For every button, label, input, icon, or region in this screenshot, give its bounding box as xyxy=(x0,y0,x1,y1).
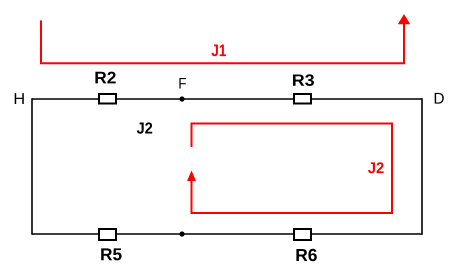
wire bottom xyxy=(32,233,422,235)
resistor R6 xyxy=(294,229,311,240)
junction dot bottom xyxy=(179,231,184,236)
label H xyxy=(15,93,24,104)
loop current arrow J1 xyxy=(41,14,410,63)
resistor R3 xyxy=(294,94,311,104)
wire left (H side) xyxy=(31,98,33,235)
resistor R5 xyxy=(99,229,116,240)
wire top (H to D) xyxy=(32,98,422,100)
label R5 xyxy=(101,248,121,260)
label J2 (mesh, red) xyxy=(368,162,384,173)
label J1 xyxy=(211,44,226,56)
wire right (D side) xyxy=(421,98,423,235)
label R6 xyxy=(296,249,316,261)
label R3 xyxy=(293,74,314,86)
label R2 xyxy=(95,72,115,84)
label F xyxy=(179,78,186,88)
label J2 (mesh, black) xyxy=(137,122,152,133)
label D xyxy=(435,93,444,104)
loop current arrow J2 xyxy=(187,124,392,214)
resistor R2 xyxy=(99,94,116,104)
node F junction dot xyxy=(179,96,184,101)
